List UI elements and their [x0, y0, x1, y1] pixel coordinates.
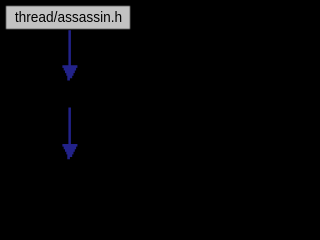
arrowhead 1 (stepped triangle) [62, 65, 77, 80]
edges svg [0, 0, 137, 187]
node label: thread/assassin.h [6, 10, 131, 25]
wire: edge 2 shaft (hidden middle node to hidden bottom node) [68, 108, 71, 145]
arrowhead 2 (stepped triangle) [62, 144, 77, 159]
wire: edge 1 shaft (root node to hidden middle node) [68, 30, 71, 65]
node box: thread/assassin.h (root include-graph node) [6, 6, 130, 29]
